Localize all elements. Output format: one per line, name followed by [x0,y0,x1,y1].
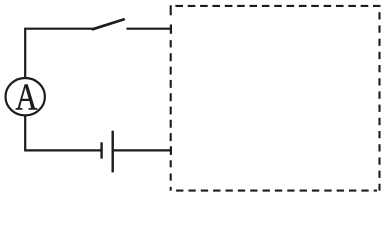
dashed box bottom edge [176,190,377,192]
battery cell: short plate (negative) [100,142,102,158]
dashed box (unknown component) top edge [175,5,380,7]
wire top-left (vertical from ammeter up, horizontal to switch pivot) [25,29,94,79]
wire bottom-right (battery to box) [113,149,171,151]
svg-text:A: A [15,76,37,118]
wire bottom-left (ammeter down, horizontal to battery) [25,115,101,150]
dashed box right edge [378,12,380,190]
terminal tick bottom [170,146,172,155]
dashed box left edge (segments leave gaps at terminals) [170,5,172,190]
wire top-right (switch contact to box) [127,28,172,30]
switch S (open blade) [93,19,124,29]
terminal tick top [170,25,172,34]
battery cell: long plate (positive) [111,131,113,173]
ammeter A1 circle [6,78,45,115]
